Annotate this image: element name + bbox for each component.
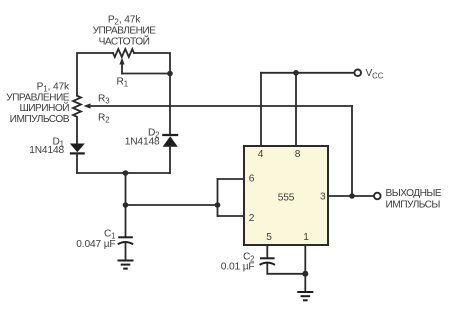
op-amp/timer U1 555 body [244, 146, 328, 245]
P1 wiper arrow pointing left [84, 103, 91, 108]
svg-text:ШИРИНОЙ: ШИРИНОЙ [19, 101, 69, 114]
svg-text:555: 555 [278, 192, 295, 203]
svg-text:ИМПУЛЬСЫ: ИМПУЛЬСЫ [386, 200, 441, 211]
wire pin 3 output [328, 195, 374, 197]
svg-text:0.01 µF: 0.01 µF [221, 262, 255, 273]
node A junction dot [167, 71, 173, 77]
svg-text:5: 5 [266, 232, 272, 243]
potentiometer P1 resistor zigzag (vertical) [73, 96, 81, 144]
wire C1 branch vertical [125, 173, 127, 237]
svg-text:ЧАСТОТОЙ: ЧАСТОТОЙ [99, 34, 150, 47]
wire down from R3 to pin 3 net [351, 106, 353, 196]
wire pin 8 up to Vcc rail [295, 73, 297, 146]
P2 wiper arrow [121, 63, 123, 74]
junction dot pin8/Vcc [293, 70, 299, 76]
wire C1 node to pins 2/6 bracket [126, 204, 218, 206]
svg-text:УПРАВЛЕНИЕ: УПРАВЛЕНИЕ [6, 92, 70, 103]
svg-text:1N4148: 1N4148 [125, 136, 160, 147]
junction dot loop/C1 [123, 170, 129, 176]
wire D1 to bottom loop [76, 153, 78, 173]
svg-text:1: 1 [303, 232, 309, 243]
capacitor C1 [118, 236, 133, 238]
svg-text:ВЫХОДНЫЕ: ВЫХОДНЫЕ [386, 188, 442, 199]
wire pin 6 [218, 178, 245, 180]
wire top-left horizontal (left end of P2 loop) [77, 53, 113, 96]
wire node A down to D2 [169, 74, 171, 136]
wire wiper to node A [122, 73, 170, 75]
capacitor C2 [260, 257, 275, 259]
wire pin 5 down to C2 [266, 245, 268, 258]
svg-text:0.047 µF: 0.047 µF [76, 239, 115, 250]
wire pin 4 up to Vcc rail [260, 73, 262, 146]
svg-text:1N4148: 1N4148 [29, 145, 64, 156]
svg-text:УПРАВЛЕНИЕ: УПРАВЛЕНИЕ [93, 25, 157, 36]
wire R3 horizontal from wiper to output branch [90, 105, 353, 107]
svg-text:6: 6 [249, 173, 255, 184]
junction dot C1 node [123, 202, 129, 208]
wire Vcc rail [261, 72, 354, 74]
diode D1 (pointing down) [70, 144, 85, 153]
potentiometer P2 resistor zigzag [113, 49, 134, 57]
svg-text:3: 3 [320, 191, 326, 202]
wire bracket vertical tying pins 6 and 2 [217, 179, 219, 216]
ground below C1 [118, 260, 134, 262]
wire pin 1 down to ground [304, 245, 306, 292]
svg-text:ИМПУЛЬСОВ: ИМПУЛЬСОВ [10, 114, 70, 125]
wire C1 to ground [125, 244, 127, 261]
svg-text:8: 8 [295, 149, 301, 160]
svg-text:2: 2 [249, 213, 255, 224]
svg-text:4: 4 [258, 149, 264, 160]
junction dot pin3/R3 [349, 193, 355, 199]
wire pin 2 [218, 215, 245, 217]
wire D2 to bottom loop [169, 147, 171, 173]
terminal output [374, 193, 381, 200]
wire bottom of left loop [77, 172, 170, 174]
wire from P2 right end to node A [134, 53, 170, 74]
ground below pin 1 [297, 291, 313, 293]
diode D2 (pointing up) [162, 134, 178, 136]
junction dot bracket node [215, 202, 221, 208]
junction dot pin1/C2 [302, 271, 308, 277]
wire C2 to pin1 net [267, 264, 305, 274]
terminal Vcc [354, 70, 361, 77]
